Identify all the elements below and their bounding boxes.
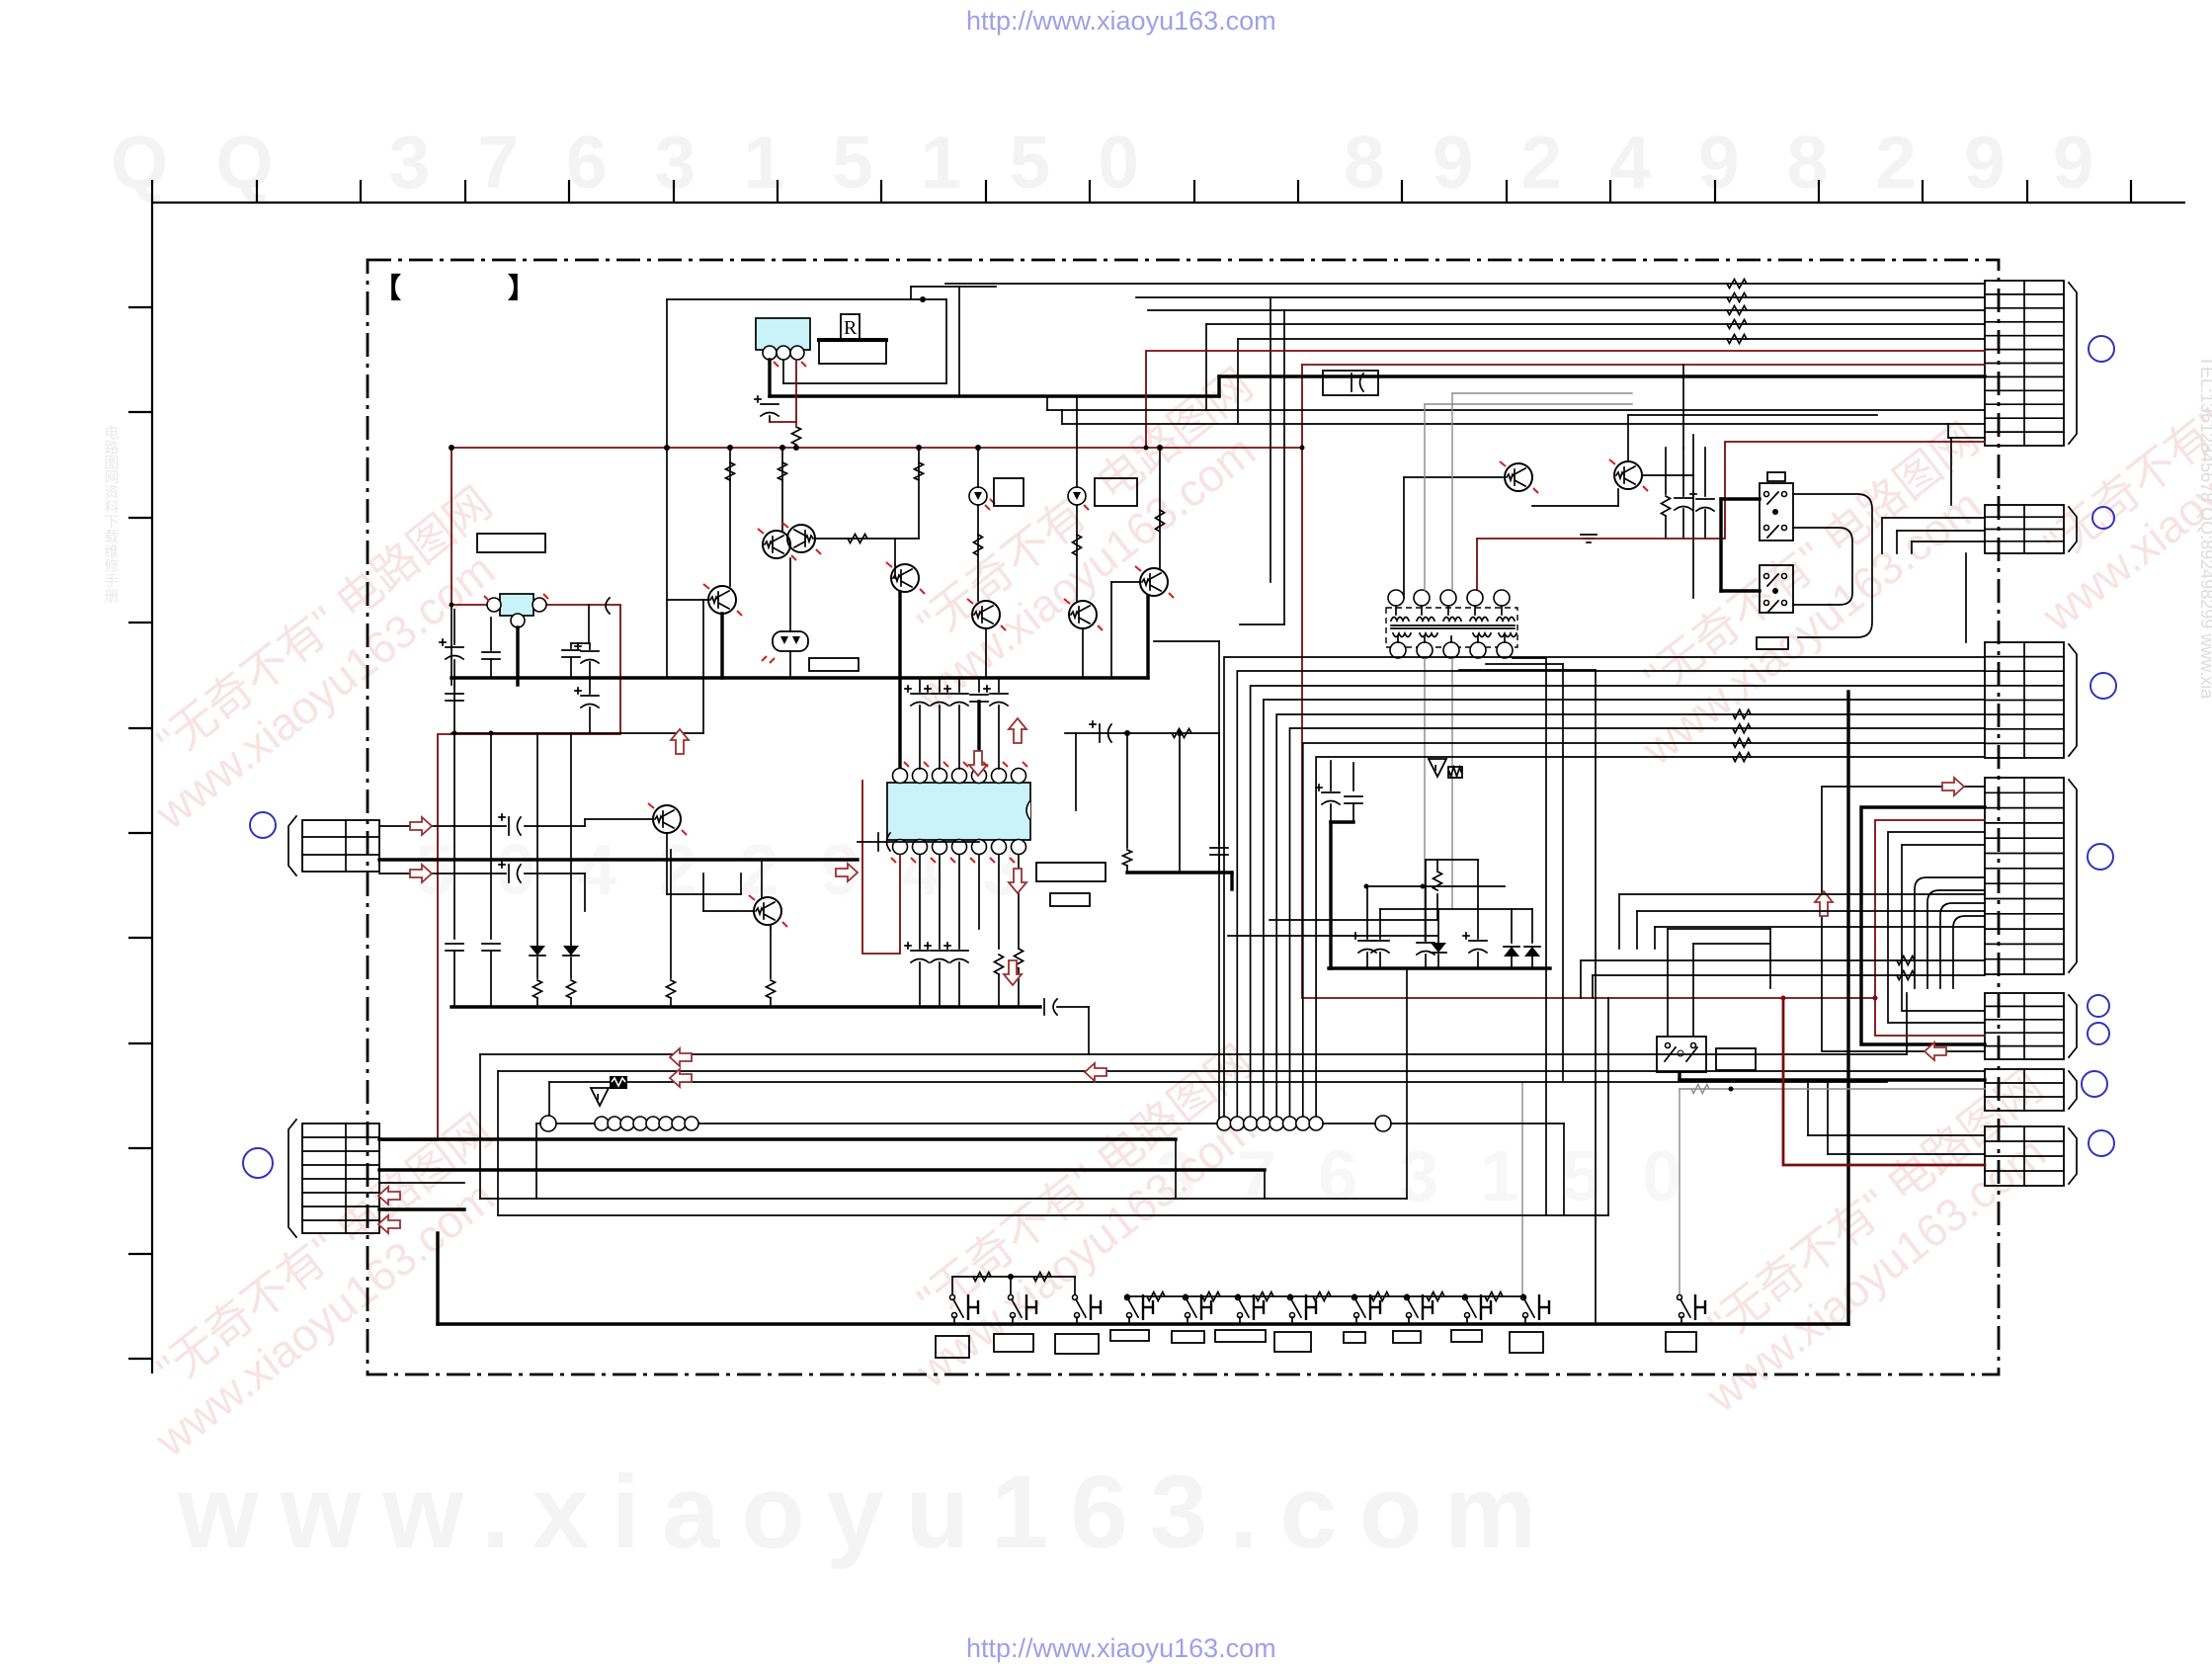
switch SW11 [1521, 1294, 1550, 1324]
resistors in bundle [1727, 280, 1747, 289]
wires to CN4 lower [1619, 894, 1985, 949]
wire loop around IR [667, 287, 1219, 600]
right mesh block [1076, 730, 1232, 889]
svg-text:QQ 376315150: QQ 376315150 [111, 121, 1187, 204]
capacitor C12 row [905, 943, 968, 1007]
capacitor row under bus [905, 678, 1008, 769]
svg-text:!: ! [596, 1091, 600, 1106]
ruler left [128, 180, 152, 1373]
transistor Q6 [1064, 599, 1103, 678]
C-clamp wire thick [1861, 807, 1985, 1044]
transistor Q8 [1404, 461, 1618, 598]
junction dots red bus [449, 445, 454, 451]
wires above SW13 [1668, 929, 1770, 1037]
thick wires right-bottom [1679, 692, 1985, 1324]
IR receiver module [756, 318, 810, 367]
transistor Q1 [667, 448, 742, 678]
wires CN1 lower pins [1047, 396, 1985, 438]
connector CN9 (left large) [243, 1120, 379, 1237]
connector CN6 [1985, 1069, 2107, 1111]
ruler top [152, 180, 2185, 203]
LED D2 with box [969, 448, 1024, 601]
svg-text:电路图网资料下载维修手册: 电路图网资料下载维修手册 [103, 425, 120, 604]
IC arrows [671, 729, 689, 754]
switch labels [936, 1336, 969, 1358]
capacitor C1 [755, 396, 778, 422]
connector CN7 [1985, 1126, 2114, 1186]
resistor R3 [778, 462, 787, 480]
transistor Q3 [782, 523, 919, 564]
zener D4 [1431, 909, 1446, 968]
label box below S2 [1757, 637, 1788, 649]
wire y742 mesh [451, 600, 703, 733]
label box (IR part) [817, 340, 888, 364]
connector CN1 [1985, 281, 2114, 446]
thick bus lower-left [451, 1005, 1040, 1008]
connector CN8 (left small) [250, 812, 379, 875]
switch SW9 [1405, 1294, 1434, 1324]
switch SW12 [1678, 1294, 1706, 1324]
transformer T1 [1386, 590, 1517, 658]
resistor R13 [667, 850, 676, 1007]
resistor R7 [1073, 535, 1082, 555]
capacitor C2 [606, 598, 610, 614]
connector CN4 [1985, 778, 2113, 974]
resistor R6 [974, 535, 983, 555]
C-clamp wire inner1 [1888, 832, 1985, 1023]
diagonal pink watermarks [112, 279, 2212, 1466]
transistor Q4 [886, 448, 925, 769]
switch SW6 [1236, 1294, 1265, 1324]
left mesh caps on lower bus [446, 678, 500, 1007]
transistor Q11 [703, 860, 787, 929]
svg-text:!: ! [1434, 762, 1437, 777]
resistor R5 [915, 462, 924, 480]
switch SW3 [1073, 1294, 1102, 1324]
warning triangle W2 [1429, 759, 1446, 777]
red wire from IC pin1 [862, 781, 900, 954]
switch SW4 [1125, 1294, 1154, 1324]
capacitor C19 pair [1316, 761, 1362, 822]
switch SW1 [950, 1294, 979, 1324]
wires CN3 to header row B [1224, 657, 1985, 1117]
crystal X1 [484, 594, 548, 627]
dash-dot border [368, 260, 1999, 1374]
connector CN5 [1985, 993, 2109, 1059]
resistor chain 2 [1125, 1292, 1526, 1301]
resistor R10 [1228, 860, 1442, 936]
long wires (mid left) [480, 993, 1985, 1215]
bottom bus thick [438, 1233, 1848, 1324]
thick wire to CN1 with capacitor [1219, 371, 1985, 396]
LED D3 with box [1068, 396, 1137, 601]
label box (upper left) [477, 534, 545, 552]
wires from switches S1/S2 [1721, 494, 1872, 637]
resistor R14 [767, 925, 776, 1007]
red arrows near CN4/CN5 [1942, 778, 1964, 795]
capacitor C8 [1352, 886, 1389, 968]
CN8 pin wires with arrows [379, 814, 858, 911]
diode D8 [563, 733, 579, 1007]
transistor Q5 [967, 599, 1006, 678]
switch S1 [1760, 472, 1793, 541]
thick bus (cap/diode row) [1329, 822, 1550, 968]
capacitor C5/C6 [562, 605, 599, 678]
capacitor C7 pair [1675, 365, 1714, 539]
crystal stub [516, 627, 519, 685]
svg-text:TEL:13612345678 QQ:892498299 w: TEL:13612345678 QQ:892498299 www.xia [2197, 356, 2212, 700]
blue label box [1050, 893, 1090, 906]
warning triangle W1 [591, 1088, 609, 1106]
resistor R4 [848, 535, 867, 543]
switch SW2 [1009, 1294, 1037, 1324]
IC bottom pin wires [920, 855, 999, 949]
arc fan to CN4 [1915, 877, 1985, 988]
svg-text:http://www.xiaoyu163.com: http://www.xiaoyu163.com [966, 6, 1276, 36]
header row B [1217, 1116, 1564, 1215]
connector CN3 [1985, 642, 2116, 758]
R logo [841, 314, 860, 339]
resistor R11/R12 [995, 955, 1004, 974]
fuse box F1 [549, 1076, 1887, 1089]
red wire mid [1477, 442, 1985, 598]
diode D5 [1504, 909, 1519, 968]
svg-text:【: 【 [373, 273, 401, 303]
connector CN2 [1985, 505, 2114, 553]
C-clamp wire inner2 [1902, 845, 1985, 1011]
capacitor C13 (bus end) [1044, 999, 1089, 1054]
resistor R2 [726, 462, 735, 480]
diode D6 [1524, 909, 1540, 968]
red long wire (lower) [1302, 997, 1875, 999]
vertical feeds for switches [1522, 1083, 1679, 1298]
transistor Q9 [1609, 415, 1877, 598]
switch S2 [1760, 565, 1793, 613]
long wires from CN9 [379, 968, 1608, 1215]
gray wires from transformer [1425, 393, 1632, 941]
red wire right main [1300, 365, 1986, 998]
transistor Q2 [758, 448, 796, 560]
IC U1 (main) [887, 762, 1030, 863]
switch unit SW13 [1657, 1037, 1706, 1072]
cap C18 line [1065, 721, 1219, 742]
resistor lines to CN4 bottom [1581, 957, 1985, 999]
red wire drop to CN7 [1781, 996, 1986, 1166]
capacitor C10 [1463, 860, 1487, 968]
fuse box F2 [1448, 767, 1462, 778]
capacitor C3/C4 [440, 610, 500, 678]
dual LED D1 [762, 558, 808, 678]
capacitor C6b (below bus) [452, 678, 600, 736]
capacitor C9 [1417, 860, 1434, 968]
thick power bus (center) [451, 676, 1148, 679]
red wire left block [382, 448, 620, 1140]
resistor R9 [1662, 448, 1671, 539]
wires to CN7 [1808, 1080, 1985, 1154]
long verticals right area [1459, 438, 1966, 1324]
label box next to SW13 [1716, 1048, 1756, 1070]
C-clamp wire red [1875, 820, 1985, 1036]
ground symbol [1581, 535, 1597, 542]
svg-text:http://www.xiaoyu163.com: http://www.xiaoyu163.com [966, 1633, 1276, 1663]
switch SW10 [1463, 1294, 1492, 1324]
red wire to CN1 a [1146, 351, 1985, 448]
switch SW8 [1352, 1294, 1381, 1324]
C-clamp wire outer [1822, 787, 1985, 1051]
resistor R8 [1156, 510, 1165, 532]
switch SW5 [1184, 1294, 1212, 1324]
diode D7 [530, 733, 545, 1007]
label box under IC [1036, 863, 1106, 881]
gray line to CN6 [1679, 1085, 1985, 1094]
resistor R15 [1172, 729, 1191, 738]
capacitor C4b (below bus) [446, 678, 463, 701]
switch SW7 [1288, 1294, 1317, 1324]
svg-text:www.xiaoyu163.com: www.xiaoyu163.com [177, 1455, 1558, 1570]
wire bundle to CN1 [945, 284, 1985, 624]
header row A [536, 1082, 1217, 1199]
transistor Q10 [585, 803, 741, 894]
svg-text:892498299: 892498299 [1344, 121, 2141, 204]
wires above cap row [1364, 860, 1533, 909]
red arrows various [378, 1187, 400, 1205]
red power bus (upper) [451, 447, 1302, 449]
label box (LED) [809, 658, 859, 671]
svg-text:】: 】 [508, 273, 535, 303]
cap C17 line [858, 833, 979, 851]
wires to CN2 [1882, 518, 1985, 553]
resistor chain 1 [952, 1273, 1075, 1295]
svg-text:R: R [844, 317, 858, 339]
resistor R1 [770, 360, 801, 448]
transistor Q7 [1111, 448, 1219, 1123]
